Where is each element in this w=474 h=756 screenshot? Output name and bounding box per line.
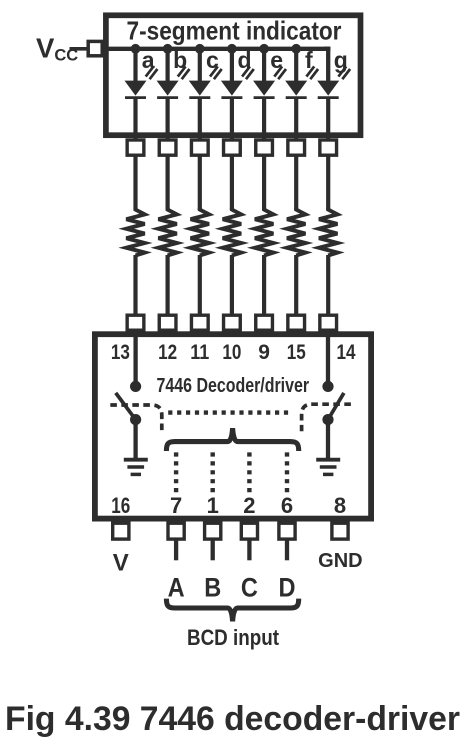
ground right [316, 460, 340, 475]
wire switch left to ground [133, 420, 137, 460]
svg-text:7: 7 [170, 493, 182, 518]
LED e triangle [253, 81, 275, 96]
svg-text:16: 16 [111, 493, 130, 518]
terminal square pin 2 [241, 523, 257, 539]
wire LED e cathode [262, 98, 266, 140]
wire LED d cathode [230, 98, 234, 140]
brace over BCD pins (inside box) [166, 428, 298, 451]
svg-text:Fig 4.39 7446 decoder-driver: Fig 4.39 7446 decoder-driver [5, 700, 460, 738]
wire LED f anode [294, 49, 298, 82]
resistor R3 [191, 208, 209, 256]
wire LED a cathode [133, 98, 137, 140]
dotted wire to BCD pin [285, 452, 289, 493]
terminal square pin 7 [168, 523, 184, 539]
wire pin 14 to switch [326, 331, 330, 384]
LED f triangle [285, 81, 307, 96]
wire input D [285, 539, 289, 560]
terminal square c top row [191, 140, 208, 155]
dotted wire between switches [168, 410, 291, 414]
node switch right bottom contact [322, 414, 333, 425]
svg-text:B: B [204, 572, 221, 602]
wire LED a anode [133, 49, 137, 82]
7-segment indicator box [106, 15, 361, 135]
resistor R2 [158, 208, 176, 256]
dotted wire to BCD pin [210, 452, 214, 493]
wire e resistor to pin [262, 255, 266, 316]
terminal square d top row [224, 140, 241, 155]
node switch right top contact [322, 381, 333, 392]
node switch left top contact [130, 381, 141, 392]
svg-text:C: C [241, 572, 258, 602]
wire d resistor to pin [230, 255, 234, 316]
svg-text:BCD input: BCD input [187, 625, 280, 650]
resistor R7 [319, 208, 337, 256]
wire switch right to ground [326, 420, 330, 460]
wire b to resistor [166, 155, 170, 210]
terminal square pin 6 [279, 523, 295, 539]
LED e cathode bar [254, 96, 275, 99]
node bus junction b [163, 44, 173, 54]
LED a arrows [146, 66, 158, 79]
terminal square pin 1 [205, 523, 221, 539]
terminal square a top row [127, 140, 144, 155]
switch left arm [116, 393, 136, 420]
LED c cathode bar [189, 96, 210, 99]
LED b cathode bar [157, 96, 178, 99]
wire LED g cathode [326, 98, 330, 140]
svg-text:10: 10 [222, 341, 241, 364]
svg-text:14: 14 [337, 341, 356, 364]
terminal square f bottom row [288, 315, 305, 330]
wire LED c cathode [198, 98, 202, 140]
wire g resistor to pin [326, 255, 330, 316]
wire input B [211, 539, 215, 560]
terminal square pin 16 [113, 523, 129, 539]
LED e arrows [274, 66, 286, 79]
wire f to resistor [294, 155, 298, 210]
svg-text:2: 2 [243, 493, 255, 518]
wire c resistor to pin [198, 255, 202, 316]
wire input C [247, 539, 251, 560]
LED c triangle [189, 81, 211, 96]
dashed wire left switch [110, 405, 162, 432]
terminal square g bottom row [320, 315, 337, 330]
svg-text:13: 13 [111, 341, 130, 364]
svg-text:7446 Decoder/driver: 7446 Decoder/driver [157, 375, 310, 397]
LED d arrows [242, 66, 254, 79]
svg-text:D: D [279, 572, 296, 602]
LED d cathode bar [221, 96, 242, 99]
wire LED e anode [262, 49, 266, 82]
terminal square a bottom row [127, 315, 144, 330]
terminal square pin 8 [332, 523, 348, 539]
wire LED c anode [198, 49, 202, 82]
svg-text:11: 11 [190, 341, 209, 364]
wire d to resistor [230, 155, 234, 210]
svg-text:1: 1 [207, 493, 219, 518]
terminal square e bottom row [256, 315, 273, 330]
node switch left bottom contact [130, 414, 141, 425]
LED a triangle [125, 81, 147, 96]
switch right arm [328, 393, 344, 420]
wire f resistor to pin [294, 255, 298, 316]
terminal square b top row [159, 140, 176, 155]
LED g cathode bar [318, 96, 339, 99]
LED a cathode bar [125, 96, 146, 99]
dotted wire to BCD pin [174, 452, 178, 493]
terminal Vcc square [88, 41, 102, 55]
ground left [124, 460, 148, 475]
node bus junction e [259, 44, 269, 54]
svg-text:GND: GND [318, 550, 362, 572]
terminal square b bottom row [159, 315, 176, 330]
node bus junction d [227, 44, 237, 54]
terminal square f top row [288, 140, 305, 155]
LED c arrows [210, 66, 222, 79]
wire g corner [326, 47, 330, 82]
dashed wire right switch [302, 404, 351, 431]
wire b resistor to pin [166, 255, 170, 316]
wire g to resistor [326, 155, 330, 210]
wire input A [174, 539, 178, 560]
wire c to resistor [198, 155, 202, 210]
svg-text:A: A [168, 572, 185, 602]
wire a to resistor [133, 155, 137, 210]
wire LED b anode [166, 49, 170, 82]
node bus junction f [291, 44, 301, 54]
wire Vcc bus [104, 49, 326, 50]
terminal square e top row [256, 140, 273, 155]
LED f arrows [306, 66, 318, 79]
svg-text:15: 15 [287, 341, 306, 364]
svg-text:8: 8 [334, 493, 346, 518]
node bus junction a [131, 44, 141, 54]
LED g arrows [338, 66, 350, 79]
terminal square d bottom row [224, 315, 241, 330]
LED g triangle [317, 81, 339, 96]
wire e to resistor [262, 155, 266, 210]
resistor R1 [126, 208, 144, 256]
svg-text:V: V [113, 549, 129, 576]
7446 decoder box [95, 334, 371, 518]
terminal square c bottom row [191, 315, 208, 330]
LED b arrows [178, 66, 190, 79]
svg-text:9: 9 [258, 341, 270, 364]
dotted wire to BCD pin [247, 452, 251, 493]
svg-text:12: 12 [158, 341, 177, 364]
brace BCD input [166, 599, 298, 622]
resistor R5 [255, 208, 273, 256]
wire LED b cathode [166, 98, 170, 140]
wire pin 13 to switch [133, 331, 137, 384]
terminal square g top row [320, 140, 337, 155]
wire LED f cathode [294, 98, 298, 140]
LED b triangle [157, 81, 179, 96]
resistor R6 [287, 208, 305, 256]
svg-text:7-segment indicator: 7-segment indicator [127, 16, 342, 46]
wire LED d anode [230, 49, 234, 82]
resistor R4 [223, 208, 241, 256]
wire a resistor to pin [133, 255, 137, 316]
svg-text:6: 6 [281, 493, 293, 518]
node bus junction c [195, 44, 205, 54]
LED f cathode bar [286, 96, 307, 99]
wire Vcc lead [70, 47, 89, 51]
LED d triangle [221, 81, 243, 96]
